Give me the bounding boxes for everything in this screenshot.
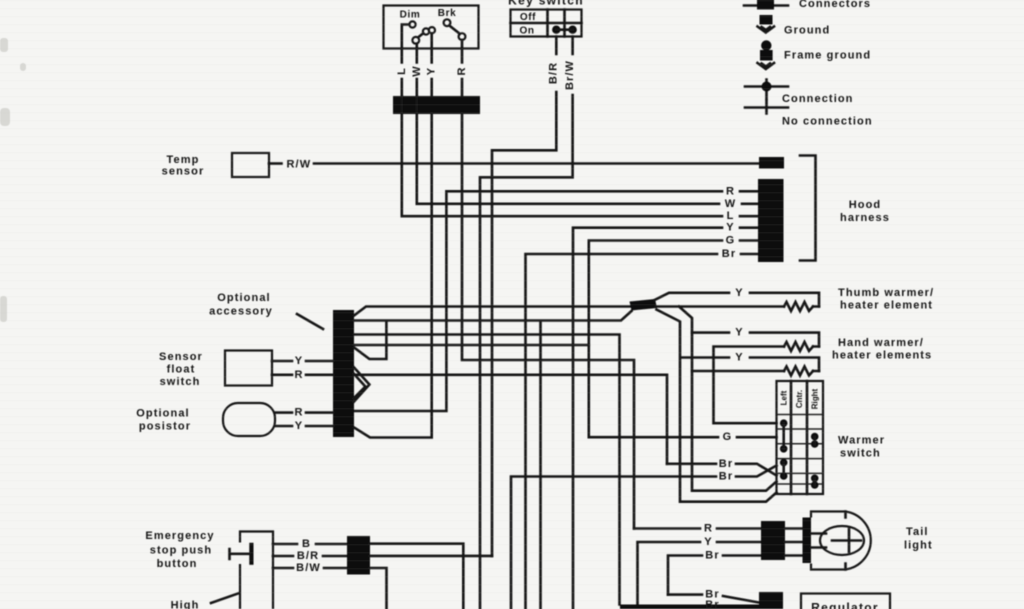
label Right rotated [811, 388, 820, 409]
wire R from brk to tail light [462, 114, 634, 529]
resistor hand warmer 1 [784, 342, 813, 351]
resistor thumb warmer element [784, 302, 813, 311]
wire Br regulator 1 [668, 595, 759, 603]
scan artifact marks [0, 38, 26, 322]
svg-text:B/R: B/R [297, 550, 319, 562]
svg-text:Y: Y [295, 420, 303, 432]
svg-text:accessory: accessory [209, 306, 273, 318]
svg-text:Frame ground: Frame ground [784, 50, 871, 62]
label Br regulator 1 [705, 589, 719, 601]
wire Y from dim switch [430, 48, 433, 96]
label G hood [726, 235, 736, 247]
svg-text:G: G [726, 235, 736, 247]
label Y posistor [295, 420, 303, 432]
svg-text:Connectors: Connectors [799, 0, 871, 10]
svg-text:R: R [294, 369, 303, 381]
label On [519, 26, 534, 37]
svg-text:Br: Br [719, 458, 733, 470]
svg-text:R: R [704, 523, 713, 535]
tail light socket bar [803, 518, 812, 564]
legend frame ground symbol [758, 40, 775, 69]
wire B out to bottom [370, 544, 463, 609]
svg-text:R/W: R/W [287, 159, 312, 171]
svg-text:High: High [171, 600, 200, 609]
label L rotated [396, 67, 408, 75]
wire hood R row [354, 191, 722, 411]
optional posistor bulb [223, 403, 275, 436]
svg-text:Y: Y [704, 536, 712, 548]
legend label No connection [782, 116, 873, 128]
svg-text:R: R [456, 66, 468, 75]
label Cntr rotated [795, 390, 804, 408]
label R posistor [294, 407, 303, 419]
svg-text:Off: Off [520, 12, 536, 23]
wire Br/W from key switch [480, 37, 573, 609]
label Y hand2 [735, 352, 743, 364]
svg-text:B/R: B/R [548, 62, 560, 84]
wire stub temp sensor [269, 162, 282, 165]
label Br regulator 2 [705, 599, 719, 609]
stub G hood [740, 239, 758, 242]
label Dim [400, 10, 421, 21]
svg-text:B: B [302, 538, 311, 550]
svg-text:Connection: Connection [782, 93, 854, 105]
wire thumb warmer bottom with branch [656, 307, 819, 491]
svg-text:Y: Y [735, 352, 743, 364]
svg-text:heater elements: heater elements [832, 350, 932, 362]
wire L from dim switch [400, 48, 403, 96]
svg-text:R: R [294, 407, 303, 419]
wire hood W row [417, 96, 719, 204]
label Warmer switch [838, 435, 885, 460]
svg-text:Hand warmer/: Hand warmer/ [838, 337, 924, 349]
wire float Y [272, 360, 333, 363]
hood harness small connector [759, 157, 784, 169]
wire W from dim switch [415, 48, 418, 96]
wire Br2 to warmer switch [511, 466, 777, 609]
svg-text:Br: Br [705, 599, 719, 609]
svg-text:switch: switch [840, 448, 881, 460]
svg-text:Y: Y [726, 222, 734, 234]
switch box Dim/Brk [384, 6, 479, 49]
legend label Connection [782, 93, 854, 105]
svg-text:Cntr.: Cntr. [795, 390, 804, 408]
svg-text:Dim: Dim [400, 10, 421, 21]
stub Y hood [740, 226, 758, 229]
wire accessory pin2 with jumper loop [354, 311, 632, 359]
wire posistor Y [275, 425, 333, 428]
svg-text:L: L [727, 210, 735, 222]
label Emergency stop push button [145, 530, 214, 570]
svg-text:Y: Y [735, 287, 743, 299]
label Regulator [811, 601, 879, 609]
accessory bar chevron marks [354, 367, 370, 402]
label Brk [438, 8, 456, 19]
wire accessory to G vertical [354, 344, 589, 347]
svg-text:Ground: Ground [784, 25, 830, 37]
label Left rotated [780, 390, 789, 405]
wire B/W out to bottom [370, 568, 387, 609]
svg-text:button: button [157, 558, 198, 570]
label Y thumb [735, 287, 743, 299]
svg-text:Brk: Brk [438, 8, 456, 19]
label L hood [727, 210, 735, 222]
label Optional accessory [209, 292, 273, 318]
svg-text:Br: Br [722, 248, 736, 260]
svg-text:G: G [723, 431, 733, 443]
svg-text:No connection: No connection [782, 116, 873, 128]
wire R/W to hood connector [314, 162, 758, 165]
wire accessory to warmer switch Br [354, 375, 667, 464]
wire thumb warmer top Y [655, 293, 820, 307]
label Y rotated [426, 67, 438, 75]
wire Br regulator 2 thick [620, 605, 760, 609]
wire hand warmer 1 top Y [692, 333, 819, 347]
wire Br tail light [668, 556, 761, 595]
wire B/R out [370, 555, 492, 558]
regulator box [801, 594, 890, 609]
svg-text:Warmer: Warmer [838, 435, 885, 447]
label B/W ems [296, 562, 321, 574]
wire hood Y row [573, 228, 722, 609]
label B/R ems [297, 550, 319, 562]
legend no-connection symbol [745, 101, 788, 114]
key switch table [511, 10, 582, 37]
tail light bulb [811, 526, 864, 555]
push button symbol [230, 543, 254, 565]
label Y hood [726, 222, 734, 234]
warmer switch left column contacts [780, 419, 788, 479]
pointer high [211, 594, 238, 604]
label Off [520, 12, 536, 23]
label W rotated [411, 65, 423, 76]
brk switch contacts [444, 19, 466, 48]
label Y hand1 [735, 327, 743, 339]
tail light housing [811, 512, 871, 570]
label Br/W rotated [564, 60, 576, 90]
label High [171, 600, 200, 609]
wire posistor R [275, 411, 333, 414]
wire R from brk switch [461, 48, 464, 96]
temp sensor box [232, 153, 269, 177]
wire float R [272, 373, 333, 376]
wire accessory pin3 down to bottom [354, 335, 620, 605]
regulator connector [759, 592, 783, 609]
label W hood [725, 198, 736, 210]
svg-text:Left: Left [780, 390, 789, 405]
label B/R rotated [548, 62, 560, 84]
stub R hood [740, 190, 758, 193]
label R tail [704, 523, 713, 535]
emergency stop connector [347, 536, 370, 575]
label R float [294, 369, 303, 381]
wire hood Br row [526, 254, 718, 609]
label R rotated [456, 66, 468, 75]
svg-text:Optional: Optional [136, 408, 189, 420]
wire B/W from emergency stop [273, 567, 347, 570]
svg-text:heater element: heater element [840, 300, 933, 312]
wire accessory bottom to dim Y [354, 114, 432, 438]
svg-text:posistor: posistor [139, 421, 191, 433]
svg-text:Hood: Hood [849, 199, 882, 211]
wire hand warmer 1 bottom return [714, 347, 820, 424]
wire B/R from key switch [492, 37, 556, 556]
legend label Connectors [799, 0, 871, 10]
svg-text:stop push: stop push [150, 545, 212, 557]
svg-text:B/W: B/W [296, 562, 321, 574]
label Br2 warmer [719, 471, 733, 483]
wire B from emergency stop [273, 543, 347, 546]
svg-text:Br: Br [719, 471, 733, 483]
connector block under dim/brk switch [393, 96, 480, 114]
sensor float switch box [225, 351, 272, 386]
svg-text:switch: switch [160, 376, 201, 388]
label Hood harness [840, 199, 890, 224]
wire G to warmer switch [589, 436, 777, 439]
legend label Frame ground [784, 50, 871, 62]
svg-text:float: float [167, 364, 196, 376]
stub L hood [740, 215, 758, 218]
vertical wire B/R branch [539, 323, 542, 609]
key switch On contacts [552, 26, 577, 34]
tail light connector [761, 521, 785, 560]
resistor hand warmer 2 [784, 367, 813, 376]
label B ems [302, 538, 311, 550]
svg-text:Key switch: Key switch [508, 0, 584, 8]
label R hood [726, 185, 735, 197]
label Hand warmer / heater elements [832, 337, 932, 362]
label R/W [287, 159, 312, 171]
thumb warmer connector [630, 299, 658, 311]
svg-text:sensor: sensor [162, 166, 205, 178]
emergency stop switch box [240, 532, 273, 609]
wire Br1 to warmer switch [667, 464, 777, 476]
label Y tail [704, 536, 712, 548]
svg-text:Emergency: Emergency [145, 530, 214, 542]
svg-text:L: L [396, 67, 408, 75]
label Y float [295, 355, 303, 367]
label Optional posistor [136, 408, 191, 433]
label Tail light [904, 526, 933, 552]
svg-text:W: W [411, 65, 423, 76]
wire hand warmer 2 bottom return [692, 370, 819, 373]
legend ground symbol [758, 15, 775, 33]
wire R tail light [634, 527, 761, 530]
legend label Ground [784, 25, 830, 37]
svg-text:Tail: Tail [906, 526, 929, 538]
wire B/R from emergency stop [273, 555, 347, 558]
hood harness main connector [758, 179, 784, 262]
label G warmer [723, 431, 733, 443]
label Br hood [722, 248, 736, 260]
stub W hood [742, 203, 758, 206]
svg-text:Br/W: Br/W [564, 60, 576, 90]
wire hand warmer 2 top Y [657, 310, 820, 502]
warmer switch table [777, 381, 824, 494]
label Temp sensor [162, 154, 205, 178]
svg-text:Br: Br [705, 550, 719, 562]
svg-text:Y: Y [735, 327, 743, 339]
svg-text:Regulator: Regulator [811, 601, 879, 609]
warmer switch right column contacts [811, 433, 819, 489]
optional accessory connector bar [333, 310, 354, 437]
svg-text:Y: Y [295, 355, 303, 367]
svg-text:Right: Right [811, 388, 820, 409]
dim switch contacts [402, 21, 435, 48]
label Br tail [705, 550, 719, 562]
wire accessory to thumb warmer connector [354, 307, 631, 316]
wires connector to socket [785, 529, 803, 556]
label Sensor float switch [159, 351, 203, 388]
svg-text:W: W [725, 198, 736, 210]
stub Br hood [741, 253, 758, 256]
svg-text:Thumb warmer/: Thumb warmer/ [838, 287, 934, 299]
svg-text:R: R [726, 185, 735, 197]
label Thumb warmer / heater element [838, 287, 934, 312]
wire hood L row [402, 96, 722, 216]
label Br1 warmer [719, 458, 733, 470]
wire hood G row [589, 241, 722, 438]
hood harness bracket [800, 156, 816, 261]
label Key switch (cut off at top) [508, 0, 584, 8]
svg-text:Optional: Optional [217, 292, 270, 304]
svg-text:Y: Y [426, 67, 438, 75]
legend connectors symbol [744, 0, 788, 10]
svg-text:On: On [519, 26, 534, 37]
svg-text:Temp: Temp [167, 154, 200, 166]
legend connection symbol [745, 80, 788, 100]
svg-text:light: light [904, 540, 933, 552]
svg-text:harness: harness [840, 212, 890, 224]
pointer optional accessory [297, 314, 323, 329]
wire Y tail light [638, 542, 762, 605]
svg-text:Sensor: Sensor [159, 351, 203, 363]
